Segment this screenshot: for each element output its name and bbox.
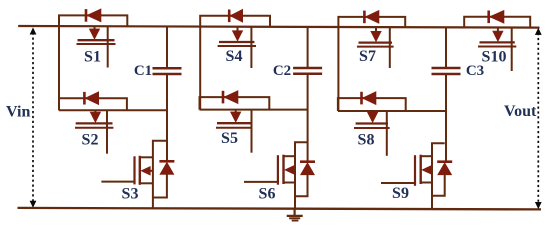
wire: bottom rail (ground net) <box>18 208 542 210</box>
wire: stage 2 mid rail <box>200 109 308 111</box>
body diode of S10 <box>489 10 504 23</box>
Vin measurement arrow <box>30 28 36 207</box>
wire: S6 drain lead <box>284 155 295 157</box>
wire: stage 1 mid rail <box>59 109 167 111</box>
wire: S6 gate lead <box>244 181 278 183</box>
mosfet S6 <box>278 155 295 185</box>
mosfet S9 <box>415 155 432 186</box>
label S9 <box>392 185 409 202</box>
body diode of S1 <box>86 9 101 22</box>
svg-text:S6: S6 <box>259 185 276 202</box>
label C3 <box>466 63 484 79</box>
wire: S9 source lead <box>421 182 432 184</box>
wire: C2 bottom lead <box>307 74 309 161</box>
wire: column below S7 <box>337 27 339 111</box>
wire: C2 top lead <box>307 27 309 68</box>
label C2 <box>273 63 291 79</box>
wire: stage 3 mid rail <box>338 110 446 112</box>
wire: column below S1 <box>58 26 60 110</box>
body diode of S8 <box>362 92 377 105</box>
wire: S3 source lead <box>140 182 153 184</box>
wire: S9 gate lead <box>381 182 415 184</box>
body diode of S5 <box>223 91 238 104</box>
capacitor C1 <box>153 68 182 74</box>
label S5 <box>221 130 238 147</box>
svg-text:C3: C3 <box>466 63 484 79</box>
wire: C3 bottom lead <box>445 74 447 161</box>
label S1 <box>84 49 101 66</box>
label Vout <box>504 103 537 120</box>
svg-text:Vout: Vout <box>504 103 537 120</box>
svg-text:C2: C2 <box>273 63 291 79</box>
wire: S2 diode loop <box>59 98 127 110</box>
label S8 <box>358 131 375 148</box>
mosfet S8 <box>354 111 390 156</box>
capacitor C3 <box>432 68 461 74</box>
label S4 <box>226 48 243 65</box>
svg-text:S1: S1 <box>84 49 101 66</box>
svg-text:S9: S9 <box>392 185 409 202</box>
wire: S5 diode loop <box>200 97 270 110</box>
mosfet S1 <box>77 26 116 67</box>
wire: S9 diode branch bottom <box>432 174 445 196</box>
body diode of S4 <box>229 9 243 22</box>
wire: S6 source lead <box>284 182 295 184</box>
wire: C1 bottom lead <box>166 74 168 160</box>
svg-text:S2: S2 <box>82 132 99 149</box>
label S10 <box>482 49 507 66</box>
svg-text:S7: S7 <box>359 48 376 65</box>
wire: column below S4 <box>199 27 201 110</box>
label S3 <box>122 186 139 203</box>
wire: S6 drain node jog <box>295 142 308 209</box>
mosfet S10 <box>478 28 516 72</box>
wire: S9 drain lead <box>421 155 432 157</box>
Vout measurement arrow <box>535 29 541 209</box>
label S2 <box>82 132 99 149</box>
svg-text:C1: C1 <box>134 63 152 79</box>
label Vin <box>6 104 30 121</box>
wire: C1 top lead <box>166 26 168 68</box>
wire: S3 gate lead <box>101 181 134 183</box>
label S7 <box>359 48 376 65</box>
wire: S8 diode loop <box>338 98 406 111</box>
capacitor C2 <box>293 68 322 74</box>
mosfet S7 <box>357 27 394 68</box>
wire: S7 diode loop <box>338 17 405 27</box>
svg-text:S10: S10 <box>482 49 507 66</box>
wire: S3 diode branch bottom <box>153 173 167 197</box>
label S6 <box>259 185 276 202</box>
ground <box>287 209 303 221</box>
svg-text:S4: S4 <box>226 48 243 65</box>
mosfet S5 <box>216 110 252 153</box>
wire: S1 diode loop <box>59 15 127 26</box>
body diode of S9 <box>437 162 452 175</box>
body diode of S6 <box>300 162 315 175</box>
wire: S10 diode loop <box>464 17 530 28</box>
label C1 <box>134 63 152 79</box>
wire: top rail <box>18 26 539 28</box>
mosfet S4 <box>218 27 256 68</box>
svg-text:Vin: Vin <box>6 104 30 121</box>
wire: S3 drain node jog <box>153 141 167 209</box>
svg-text:S5: S5 <box>221 130 238 147</box>
svg-text:S3: S3 <box>122 186 139 203</box>
wire: S3 drain lead <box>140 156 153 158</box>
mosfet S3 <box>135 156 153 185</box>
wire: S9 drain node jog <box>432 143 445 209</box>
mosfet S2 <box>75 110 113 153</box>
body diode of S7 <box>364 10 379 23</box>
wire: S6 diode branch bottom <box>295 174 308 197</box>
body diode of S3 <box>159 161 174 174</box>
wire: C3 top lead <box>445 27 447 68</box>
body diode of S2 <box>84 92 98 105</box>
wire: S4 diode loop <box>200 16 270 27</box>
svg-text:S8: S8 <box>358 131 375 148</box>
